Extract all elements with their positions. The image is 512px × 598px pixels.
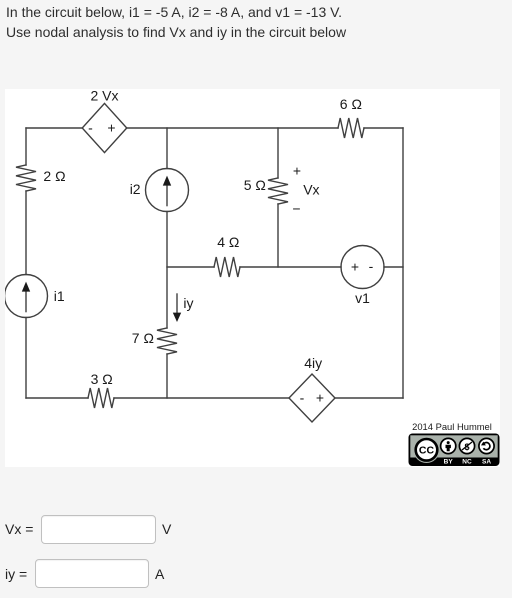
svg-text:6 Ω: 6 Ω	[340, 96, 362, 112]
wire i2 branch top	[166, 128, 168, 169]
svg-text:CC: CC	[419, 445, 435, 457]
wire top-right corner	[364, 127, 403, 129]
arrow of iy current label	[176, 294, 178, 315]
svg-text:SA: SA	[482, 459, 491, 466]
arrowhead i2	[163, 176, 171, 186]
SA icon circle	[479, 438, 494, 453]
svg-text:iy: iy	[183, 295, 193, 311]
svg-text:−: −	[292, 201, 300, 217]
svg-text:NC: NC	[462, 459, 472, 466]
arrowhead i1	[22, 282, 30, 292]
svg-text:-: -	[300, 390, 305, 406]
svg-text:3 Ω: 3 Ω	[91, 371, 113, 387]
current source i1 (circle)	[5, 275, 48, 318]
answer row Vx	[5, 521, 33, 537]
svg-text:i1: i1	[54, 288, 65, 304]
wire left middle segment	[25, 191, 27, 275]
svg-text:2 Ω: 2 Ω	[43, 168, 65, 184]
answer row iy	[5, 566, 27, 582]
wire top middle (2Vx to 6-ohm resistor)	[127, 127, 338, 129]
arrowhead iy	[173, 313, 181, 322]
svg-text:v1: v1	[355, 290, 370, 306]
svg-text:-: -	[88, 120, 93, 136]
svg-text:+: +	[293, 163, 301, 179]
svg-text:-: -	[369, 258, 374, 274]
CC logo circle	[413, 437, 439, 463]
wire right vertical	[402, 128, 404, 398]
resistor 5 ohm	[268, 178, 288, 204]
svg-text:Vx: Vx	[303, 182, 319, 198]
wire i2 branch below circle	[166, 212, 168, 329]
svg-text:i2: i2	[130, 181, 141, 197]
wire top-left (node A to 2Vx source)	[26, 127, 82, 129]
svg-text:2014 Paul Hummel: 2014 Paul Hummel	[412, 421, 492, 432]
wire bottom-left	[26, 397, 88, 399]
svg-text:5 Ω: 5 Ω	[244, 177, 266, 193]
wire 5ohm branch top	[277, 128, 279, 178]
resistor 6 ohm	[338, 118, 364, 138]
wire 7ohm to bottom	[166, 354, 168, 398]
resistor 3 ohm	[88, 388, 114, 408]
voltage source v1 (circle)	[341, 246, 384, 289]
resistor 4 ohm	[214, 257, 240, 277]
wire bottom right	[335, 397, 403, 399]
NC icon circle	[459, 438, 474, 453]
resistor 2 ohm	[16, 165, 36, 191]
wire left top segment	[25, 128, 27, 165]
BY icon circle	[441, 438, 456, 453]
svg-text:4 Ω: 4 Ω	[217, 234, 239, 250]
svg-text:+: +	[351, 259, 359, 275]
resistor 7 ohm	[157, 328, 177, 354]
wire v1 to right rail	[384, 266, 403, 268]
wire middle left (to 4 ohm)	[167, 266, 214, 268]
arrow of i2	[166, 183, 168, 206]
wire middle (4ohm to v1)	[240, 266, 341, 268]
wire bottom middle	[114, 397, 289, 399]
circuit image white panel	[5, 89, 500, 467]
wire 5ohm branch bottom	[277, 204, 279, 267]
arrow of i1	[25, 289, 27, 312]
svg-text:BY: BY	[444, 459, 454, 466]
wire left bottom segment	[25, 318, 27, 399]
BY NC SA small labels	[444, 459, 492, 466]
current source i2 (circle)	[146, 169, 189, 212]
svg-text:+: +	[316, 390, 324, 406]
dependent voltage source 4iy (diamond)	[289, 374, 335, 422]
svg-text:2 Vx: 2 Vx	[90, 89, 118, 104]
svg-text:4iy: 4iy	[304, 355, 322, 371]
dependent voltage source 2Vx (diamond)	[82, 103, 127, 152]
problem statement text	[6, 2, 346, 42]
CC BY-NC-SA license badge	[409, 434, 500, 467]
svg-text:+: +	[107, 120, 115, 136]
svg-text:7 Ω: 7 Ω	[132, 330, 154, 346]
